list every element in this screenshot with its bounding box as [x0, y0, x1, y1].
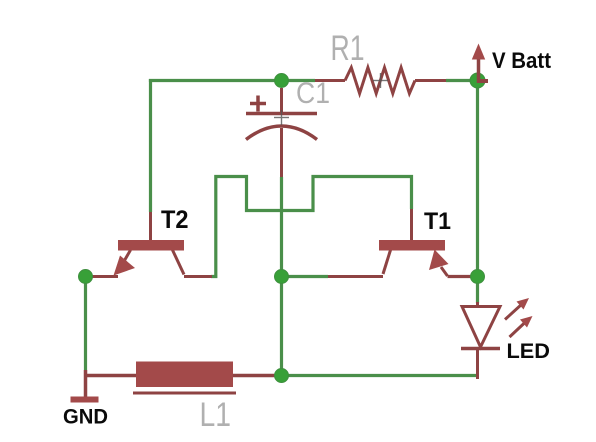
svg-text:GND: GND — [63, 405, 108, 429]
svg-text:C1: C1 — [296, 77, 330, 110]
svg-text:V Batt: V Batt — [492, 48, 551, 73]
svg-text:R1: R1 — [331, 29, 365, 68]
svg-text:T2: T2 — [161, 206, 189, 234]
svg-text:L1: L1 — [200, 396, 232, 434]
svg-text:T1: T1 — [424, 208, 451, 235]
svg-text:LED: LED — [507, 339, 551, 363]
